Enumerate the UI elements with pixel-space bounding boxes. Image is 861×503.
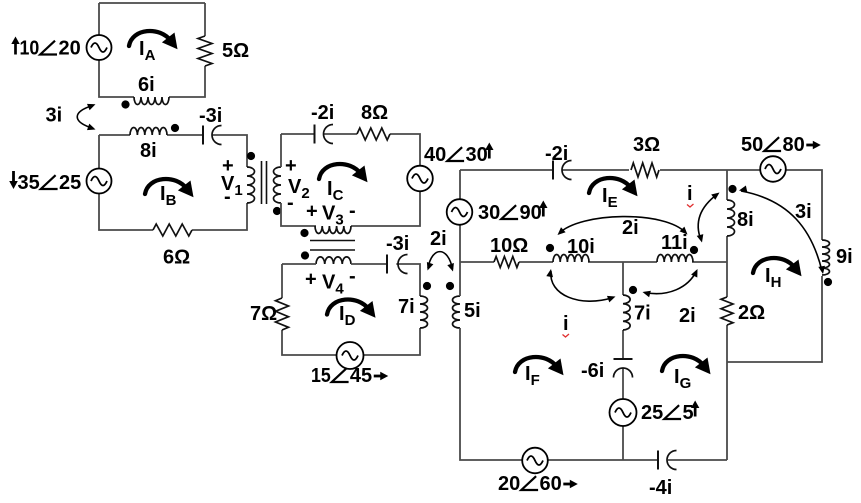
svg-text:5i: 5i <box>464 300 481 322</box>
wire E top-left <box>460 169 553 171</box>
label -3i loop-D <box>386 233 409 255</box>
svg-text:6i: 6i <box>138 74 155 96</box>
svg-text:-4i: -4i <box>649 477 672 499</box>
mutual arrow 2i between 10i and 11i <box>558 217 688 235</box>
svg-text:8Ω: 8Ω <box>361 102 388 124</box>
wire loop-B top-mid <box>167 134 203 136</box>
label 2i mutual 7i-5i <box>430 228 447 250</box>
wire mid between 10i and 11i <box>588 261 657 263</box>
svg-text:ID: ID <box>339 303 356 329</box>
wire 2ohm branch lower <box>726 325 728 460</box>
transformer core V3/V4 <box>310 241 355 251</box>
label VS2 35&#8736;25 with down arrow <box>9 171 81 194</box>
label IF <box>525 363 540 389</box>
label 5&#937; <box>222 40 249 62</box>
svg-text:V4: V4 <box>322 272 344 298</box>
svg-text:IE: IE <box>602 185 618 211</box>
svg-text:20: 20 <box>59 38 81 60</box>
wire loop-A right lower / bottom-right <box>169 66 205 97</box>
svg-text:2i: 2i <box>622 217 639 239</box>
svg-text:45: 45 <box>350 365 372 387</box>
svg-text:-2i: -2i <box>311 102 334 124</box>
svg-text:-3i: -3i <box>386 233 409 255</box>
svg-text:8i: 8i <box>140 140 157 162</box>
svg-text:6Ω: 6Ω <box>163 247 190 269</box>
svg-text:25: 25 <box>59 172 81 194</box>
label 2&#937; <box>738 302 765 324</box>
wire F left upper <box>459 170 461 200</box>
loop current arrow IE <box>589 178 638 196</box>
label 3i mutual 8i-9i <box>795 201 812 223</box>
label -3i loop-B <box>199 105 222 127</box>
dot 8i-branch <box>728 185 736 193</box>
label 6&#937; <box>163 247 190 269</box>
wire loop-B left lower / bottom-left <box>99 194 153 231</box>
wire loop-A right upper <box>204 3 206 36</box>
resistor 5&#937; <box>198 36 212 66</box>
label IE <box>602 185 618 211</box>
label IG <box>674 366 691 392</box>
resistor 2&#937; <box>721 297 733 325</box>
label 3i mutual <box>46 105 63 127</box>
dot 10i <box>546 244 554 252</box>
label 8i-branch <box>737 209 754 231</box>
svg-text:30: 30 <box>478 202 500 224</box>
svg-text:+: + <box>285 155 297 177</box>
svg-text:5: 5 <box>683 402 694 424</box>
svg-text:11i: 11i <box>661 232 688 254</box>
label IB <box>160 183 177 209</box>
transformer core V1/V2 <box>262 161 267 204</box>
label IC <box>327 178 344 204</box>
svg-text:30: 30 <box>466 144 488 166</box>
svg-text:-2i: -2i <box>545 143 568 165</box>
wire E top-mid <box>562 169 629 171</box>
wire 8i branch upper <box>726 170 728 200</box>
wire loop-D left upper <box>281 264 283 298</box>
dot 7i-branch <box>629 286 637 294</box>
mutual arrow 2i between 7i-branch and 11i <box>643 269 698 297</box>
transformer winding V3 <box>315 226 351 234</box>
label 11i <box>661 232 688 254</box>
label VS5 30&#8736;90 with up arrow <box>478 201 548 225</box>
wire bottom mid <box>548 459 658 461</box>
wire loop-C top-right <box>390 134 420 166</box>
svg-text:2i: 2i <box>679 305 696 327</box>
svg-text:+: + <box>306 201 318 223</box>
dot V4 <box>301 251 309 259</box>
svg-text:-: - <box>349 266 356 288</box>
label i mutual 10i-7i <box>563 313 570 337</box>
svg-text:5Ω: 5Ω <box>222 40 249 62</box>
inductor 8i <box>130 128 167 136</box>
wire 8i branch lower <box>726 236 728 297</box>
svg-text:2i: 2i <box>430 228 447 250</box>
dot V2 <box>273 207 281 215</box>
wire H right lower / bottom <box>727 276 822 362</box>
wire loop-B right lower / bottom-right <box>192 203 247 230</box>
svg-text:60: 60 <box>540 473 562 495</box>
wire E top-right to source <box>660 169 760 171</box>
label -4i <box>649 477 672 499</box>
svg-text:90: 90 <box>520 202 542 224</box>
svg-text:-: - <box>287 192 294 214</box>
wire loop-C left upper <box>280 134 282 167</box>
svg-text:7i: 7i <box>634 303 651 325</box>
svg-text:3Ω: 3Ω <box>633 134 660 156</box>
wire loop-A top <box>99 2 205 4</box>
label -2i loop-E <box>545 143 568 165</box>
source VS2 35&#8736;25 <box>87 169 112 194</box>
svg-text:+: + <box>305 269 317 291</box>
svg-text:IA: IA <box>139 38 156 64</box>
wire 7i branch upper <box>622 262 624 295</box>
label 9i <box>836 246 853 268</box>
capacitor -4i <box>658 451 677 470</box>
wire loop-D top-right <box>396 264 420 296</box>
label 2i mutual 10i-11i <box>622 217 639 239</box>
label 8&#937; <box>361 102 388 124</box>
wire loop-D top-mid <box>351 263 387 265</box>
svg-text:9i: 9i <box>836 246 853 268</box>
label 7i-branch <box>634 303 651 325</box>
wire loop-C right lower / bottom-right <box>351 192 420 227</box>
label VS6 20&#8736;60 with right arrow <box>498 473 578 495</box>
svg-text:V3: V3 <box>322 203 344 229</box>
wire loop-A left upper <box>98 3 100 35</box>
label IA <box>139 38 156 64</box>
label -2i loop-C <box>311 102 334 124</box>
mutual arrow 3i between 6i and 8i <box>77 104 95 130</box>
label +V1- <box>221 155 243 208</box>
label 5i <box>464 300 481 322</box>
resistor 3&#937; <box>631 163 659 177</box>
loop current arrow IA <box>129 31 178 49</box>
dot 11i <box>690 246 698 254</box>
dot 8i <box>171 124 179 132</box>
svg-text:8i: 8i <box>737 209 754 231</box>
svg-text:2Ω: 2Ω <box>738 302 765 324</box>
label VS8 50&#8736;80 with right arrow <box>741 134 821 156</box>
svg-text:-6i: -6i <box>581 360 604 382</box>
label 8i <box>140 140 157 162</box>
wire loop-B top-right <box>212 135 247 167</box>
capacitor -2i loop-E <box>553 161 572 180</box>
wire loop-D top-left <box>282 263 316 265</box>
source VS7 25&#8736;5 <box>610 399 637 426</box>
svg-text:35: 35 <box>18 172 40 194</box>
wire loop-D left lower / bottom-left <box>282 330 336 355</box>
capacitor -6i <box>614 359 633 378</box>
label i mutual 11i-8i <box>687 183 694 207</box>
transformer winding V1 <box>247 167 255 203</box>
label +V2- <box>285 155 310 214</box>
svg-text:IH: IH <box>765 265 781 291</box>
label -6i <box>581 360 604 382</box>
source VS3 40&#8736;30 <box>407 166 433 192</box>
mutual arrow 2i between 7i and 5i <box>427 252 454 272</box>
mutual arrow i between 10i and 7i-branch <box>546 269 615 302</box>
dot 7i loop-D <box>423 282 431 290</box>
inductor 11i <box>657 255 693 263</box>
loop current arrow IH <box>753 258 802 276</box>
loop current arrow IB <box>145 179 194 197</box>
svg-text:-3i: -3i <box>199 105 222 127</box>
svg-text:-: - <box>349 200 356 222</box>
wire loop-C top-left <box>281 133 315 135</box>
source VS5 30&#8736;90 <box>447 199 473 225</box>
loop current arrow IF <box>515 357 564 375</box>
svg-text:80: 80 <box>783 134 805 156</box>
capacitor -3i loop-D <box>387 255 408 274</box>
svg-text:10i: 10i <box>567 236 595 258</box>
loop current arrow ID <box>327 299 376 317</box>
label VS4 15&#8736;45 with right arrow <box>311 365 388 387</box>
svg-text:3i: 3i <box>46 105 63 127</box>
wire loop-B left upper <box>98 135 100 169</box>
wire loop-A left lower / bottom-left <box>99 60 134 97</box>
label 3&#937; <box>633 134 660 156</box>
svg-text:i: i <box>687 183 693 205</box>
svg-text:IC: IC <box>327 178 344 204</box>
svg-text:IG: IG <box>674 366 691 392</box>
svg-text:7Ω: 7Ω <box>250 303 277 325</box>
wire loop-B top-left <box>99 134 130 136</box>
svg-text:7i: 7i <box>398 296 415 318</box>
wire loop-C left lower / bottom-left <box>281 203 316 226</box>
svg-text:25: 25 <box>641 402 663 424</box>
svg-text:15: 15 <box>311 365 331 387</box>
inductor 5i <box>453 296 460 328</box>
label +V4- <box>305 266 356 298</box>
wire mid-right <box>692 261 727 263</box>
svg-text:3i: 3i <box>795 201 812 223</box>
label 10&#937; <box>490 235 528 257</box>
dot 5i <box>446 282 454 290</box>
svg-text:20: 20 <box>498 473 520 495</box>
dot 6i <box>121 100 129 108</box>
capacitor -2i loop-C <box>315 125 334 144</box>
label IH <box>765 265 781 291</box>
label VS3 40&#8736;30 with up arrow <box>424 143 494 167</box>
source VS8 50&#8736;80 <box>760 156 786 182</box>
label +V3- <box>306 200 356 229</box>
svg-text:-: - <box>224 186 231 208</box>
label ID <box>339 303 356 329</box>
source VS4 15&#8736;45 <box>337 342 364 369</box>
inductor 7i-branch <box>623 295 630 330</box>
svg-text:IB: IB <box>160 183 177 209</box>
wire loop-D right lower / bottom-right <box>364 328 420 355</box>
wire F left mid <box>459 225 461 297</box>
wire 7i to -6i cap <box>622 330 624 359</box>
wire mid between 10ohm and 10i <box>519 261 553 263</box>
resistor 7&#937; <box>276 298 289 330</box>
inductor 9i <box>822 240 830 275</box>
label 7i loop-D <box>398 296 415 318</box>
wire source 25 to bottom <box>622 426 624 460</box>
wire mid-left <box>460 261 494 263</box>
source VS6 20&#8736;60 <box>522 448 548 474</box>
inductor 6i <box>134 97 169 105</box>
mutual arrow i between 11i and 8i <box>697 193 720 243</box>
source VS1 10&#8736;20 <box>87 35 112 60</box>
svg-text:10: 10 <box>20 38 40 60</box>
resistor 6&#937; <box>153 224 192 236</box>
loop current arrow IC <box>319 164 368 182</box>
wire loop-C top-mid <box>323 133 357 135</box>
resistor 8&#937; <box>357 128 390 140</box>
inductor 10i <box>553 255 589 263</box>
inductor 8i-branch <box>727 200 735 236</box>
transformer winding V2 <box>274 167 282 203</box>
label 6i <box>138 74 155 96</box>
label 2i mutual 7i-11i <box>679 305 696 327</box>
svg-text:10Ω: 10Ω <box>490 235 528 257</box>
capacitor -3i loop-B <box>203 126 222 145</box>
mutual arrow 3i between 8i and 9i <box>739 186 825 275</box>
label 7&#937; <box>250 303 277 325</box>
label VS1 10&#8736;20 with up arrow <box>11 37 80 60</box>
wire bottom right <box>668 459 727 461</box>
loop current arrow IG <box>662 356 711 374</box>
wire -6i cap to source <box>622 368 624 399</box>
svg-text:40: 40 <box>424 144 446 166</box>
svg-text:IF: IF <box>525 363 540 389</box>
label VS7 25&#8736;5 with up arrow <box>641 401 699 425</box>
dot V3 <box>300 229 308 237</box>
label 10i <box>567 236 595 258</box>
dot V1 <box>247 152 255 160</box>
resistor 10&#937; <box>494 257 519 268</box>
svg-text:i: i <box>563 313 569 335</box>
transformer winding V4 <box>316 257 351 264</box>
inductor 7i loop-D <box>420 296 428 328</box>
dot 9i <box>824 278 832 286</box>
wire H top-right / right upper <box>786 170 822 240</box>
svg-text:50: 50 <box>741 134 763 156</box>
wire F left lower / bottom-left <box>460 328 522 460</box>
